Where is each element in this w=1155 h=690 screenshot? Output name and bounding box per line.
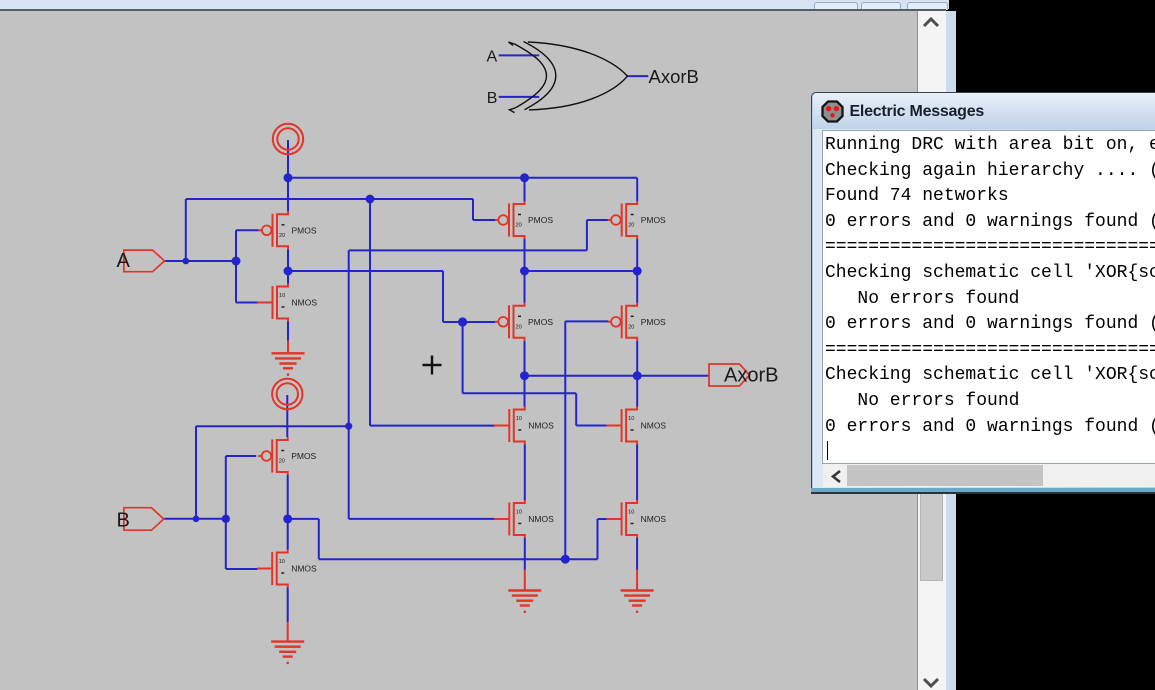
svg-text:PMOS: PMOS [292,226,317,236]
svg-text:NMOS: NMOS [641,421,667,431]
svg-text:PMOS: PMOS [528,215,553,225]
svg-text:B: B [117,510,130,532]
svg-text:AxorB: AxorB [724,365,778,387]
svg-text:NMOS: NMOS [641,514,667,524]
svg-text:10: 10 [516,416,522,422]
svg-text:NMOS: NMOS [528,514,554,524]
svg-text:20: 20 [279,233,285,239]
svg-text:PMOS: PMOS [641,317,666,327]
svg-text:A: A [117,250,131,272]
svg-text:10: 10 [628,510,634,516]
svg-text:10: 10 [279,293,285,299]
svg-text:10: 10 [279,559,285,565]
svg-text:PMOS: PMOS [528,317,553,327]
svg-text:NMOS: NMOS [291,564,317,574]
svg-text:20: 20 [628,223,634,229]
svg-text:10: 10 [516,510,522,516]
svg-text:20: 20 [516,223,522,229]
svg-text:B: B [487,90,498,107]
svg-text:PMOS: PMOS [641,215,666,225]
svg-text:AxorB: AxorB [649,66,699,87]
svg-text:A: A [487,48,498,65]
svg-text:NMOS: NMOS [528,421,554,431]
svg-text:NMOS: NMOS [292,298,318,308]
svg-text:20: 20 [279,459,285,465]
svg-text:20: 20 [628,324,634,330]
svg-text:10: 10 [628,416,634,422]
svg-text:PMOS: PMOS [291,451,316,461]
svg-text:20: 20 [516,324,522,330]
